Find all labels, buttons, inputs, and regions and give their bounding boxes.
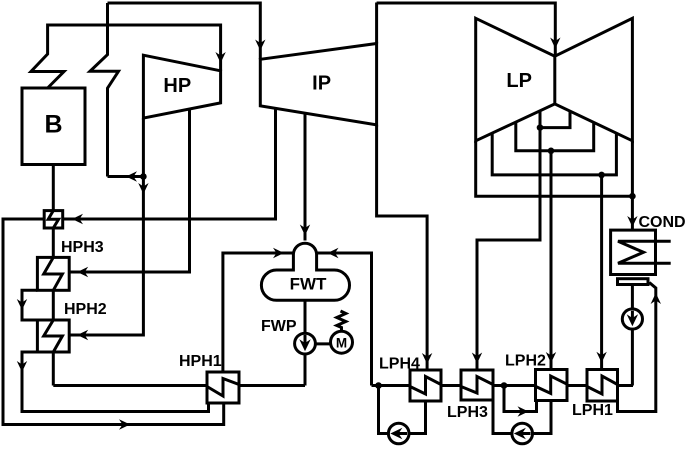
wire: LPH2 drain pump loop <box>493 401 551 434</box>
HP turbine <box>143 55 220 118</box>
wire: HPH3 drain bulge to HPH2 <box>22 290 37 320</box>
wire: main steam line B to HP <box>31 25 221 88</box>
svg-text:COND: COND <box>639 214 685 231</box>
motor M <box>331 331 353 353</box>
arrow: into LP inlet <box>550 38 560 49</box>
svg-text:HP: HP <box>163 75 191 97</box>
FWT deaerator dome <box>293 243 316 271</box>
wire: FWT right inlet from LPH4 condensate riser <box>317 253 372 386</box>
node: LPH4 drain junction <box>375 382 382 389</box>
arrow: into LPH2 <box>546 352 556 363</box>
condenser hotwell <box>618 279 649 285</box>
arrow: HP exhaust to reheat <box>126 171 137 181</box>
wire: FWP to motor link <box>305 342 342 345</box>
wire: steam cooler left line and bottom loop to HPH1 <box>3 219 224 425</box>
wire: HPH1 drain riser to FWT <box>223 253 294 372</box>
LPH3 heater <box>461 370 493 400</box>
wire: HP exhaust down <box>69 118 143 335</box>
wire: LP extraction 3 to LPH1 <box>600 175 603 370</box>
arrow: LPH1 drain up to hotwell <box>651 293 661 304</box>
arrow: into HP inlet <box>215 52 225 63</box>
HPH1 heater <box>207 372 239 403</box>
arrow: into LPH4 <box>422 353 432 364</box>
wire: condensate pump drop from hotwell <box>631 285 634 386</box>
wire: feedwater horizontal through HPH1 <box>53 384 305 387</box>
wire: LPH4 drain pump loop <box>379 386 426 434</box>
arrow: bottom loop to HPH1 <box>119 419 130 429</box>
svg-text:HPH3: HPH3 <box>61 239 104 256</box>
arrow: into LPH3 <box>472 353 482 364</box>
boiler B <box>22 88 85 165</box>
arrow: into FWT dome right <box>328 248 339 258</box>
node: LP extraction 1 junction <box>537 124 544 131</box>
svg-text:LPH3: LPH3 <box>447 404 488 421</box>
LP turbine <box>476 18 633 141</box>
wire: feedwater riser through heaters <box>52 165 55 386</box>
wire: IP extraction 1 to steam cooler <box>63 108 276 219</box>
wire: LPH2 drain jog from condensate junction <box>504 386 537 412</box>
arrow: HPH2 drain down <box>17 361 27 372</box>
HPH2 heater <box>37 320 69 352</box>
LPH4 drain pump <box>388 423 409 444</box>
arrow: into HPH3 <box>77 267 88 277</box>
wire: IP-LP crossover <box>375 3 378 44</box>
arrow: LPH2 drain jog <box>518 406 529 416</box>
wire: condensate main line through LPH heaters <box>372 384 634 387</box>
condenser COND <box>611 230 656 274</box>
wire: IP exhaust extraction to LPH4 <box>377 125 428 370</box>
arrow: into HPH2 <box>77 330 88 340</box>
arrow: into FWT dome left <box>273 248 284 258</box>
wire: HP exhaust branch to reheat riser <box>108 175 144 178</box>
steam cooler on feed line <box>44 211 63 228</box>
svg-text:LPH4: LPH4 <box>379 356 420 373</box>
node: LP extraction 3 junction <box>598 172 605 179</box>
wire: IP extraction 2 to FWT <box>304 113 307 240</box>
condensate pump under hotwell <box>622 309 642 329</box>
svg-text:IP: IP <box>312 73 331 95</box>
arrow: HPH3 drain down <box>17 299 27 310</box>
wire: hot reheat top line to IP <box>108 3 261 59</box>
arrow: into condenser <box>627 216 637 227</box>
svg-text:HPH2: HPH2 <box>64 301 107 318</box>
motor power squiggle <box>337 311 346 331</box>
svg-text:FWP: FWP <box>261 318 297 335</box>
wire: FWP drop line <box>304 300 307 385</box>
arrow: into steam cooler <box>72 214 83 224</box>
wire: LPH1 drain to hotwell <box>618 283 656 412</box>
HPH3 heater <box>37 257 69 290</box>
LPH2 heater <box>536 370 568 401</box>
LP extraction chevron 1 <box>540 111 570 128</box>
LPH1 heater <box>587 370 618 402</box>
node: LP exhaust corner junction <box>629 193 636 200</box>
wire: LP extraction 2 to LPH2 <box>550 151 553 370</box>
svg-text:LPH1: LPH1 <box>572 402 613 419</box>
LPH4 heater <box>410 370 441 401</box>
FWT feedwater tank <box>261 270 349 300</box>
arrow: into LPH1 <box>596 352 606 363</box>
wire: LP exhaust to condenser <box>631 196 634 230</box>
LPH2 drain pump <box>512 423 533 444</box>
svg-text:HPH1: HPH1 <box>179 353 222 370</box>
wire: LP exhaust hood line <box>476 141 633 196</box>
LP extraction chevron 3 <box>492 133 616 175</box>
svg-text:LP: LP <box>506 70 532 92</box>
svg-text:B: B <box>44 111 62 139</box>
svg-text:FWT: FWT <box>290 275 327 294</box>
LP extraction chevron 2 <box>516 122 594 151</box>
svg-text:M: M <box>336 336 347 351</box>
wire: reheat riser with break symbol <box>90 3 119 177</box>
IP turbine <box>260 44 376 125</box>
arrow: HP exhaust down <box>138 183 148 194</box>
arrow: into IP inlet <box>255 40 265 51</box>
wire: HP extraction to HPH3 <box>69 109 189 272</box>
FWP pump <box>295 333 316 354</box>
wire: HPH2 drain to HPH1 bottom <box>22 352 209 412</box>
node: LP extraction 2 junction <box>548 148 555 155</box>
node: LPH2 drain junction <box>501 382 508 389</box>
arrow: into FWT dome top <box>300 225 310 236</box>
node: HP exhaust junction <box>140 173 147 180</box>
wire: LP extraction 1 to LPH3 <box>477 128 540 370</box>
svg-text:LPH2: LPH2 <box>505 353 546 370</box>
